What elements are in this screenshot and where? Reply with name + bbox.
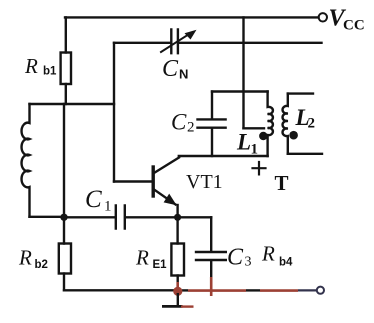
wire RE1 bottom lead black part <box>176 276 178 283</box>
svg-text:VT1: VT1 <box>186 171 223 193</box>
wire tank top <box>212 90 268 92</box>
wire bias rail y104 <box>30 103 115 105</box>
svg-text:C: C <box>85 186 102 213</box>
ground stem <box>177 293 179 305</box>
transistor VT1 collector <box>154 158 179 174</box>
transformer L2 top bracket <box>288 92 313 94</box>
svg-text:R: R <box>18 246 32 270</box>
wire emitter lead <box>176 205 178 217</box>
svg-text:N: N <box>179 67 188 82</box>
resistor R_b2 <box>59 244 71 274</box>
svg-text:1: 1 <box>104 199 112 215</box>
capacitor CN arrow <box>161 34 190 53</box>
wire second rail left of CN <box>114 42 170 44</box>
wire top Vcc rail <box>65 16 319 18</box>
transistor VT1 base bar <box>151 167 154 196</box>
inductor L2 <box>283 94 288 154</box>
svg-text:R: R <box>135 246 149 270</box>
svg-text:2: 2 <box>187 120 195 136</box>
plus sign <box>253 162 266 174</box>
capacitor CN arrowhead <box>185 30 197 40</box>
capacitor CN plates <box>171 30 178 54</box>
wire rail y217 to C1 <box>64 216 115 218</box>
polarity dot L2 <box>289 131 298 140</box>
svg-text:L: L <box>236 130 251 155</box>
svg-text:3: 3 <box>245 255 252 270</box>
wire bottom rail navy part <box>298 289 317 291</box>
node dot C1 left <box>60 214 67 221</box>
transistor emitter arrowhead <box>164 194 177 206</box>
wire mid vertical x64 <box>63 104 65 244</box>
ground red dash <box>181 305 194 307</box>
wire RE1 top lead <box>176 217 178 243</box>
ground bar <box>162 305 183 308</box>
resistor R_E1 <box>171 244 184 276</box>
resistor R_b1 <box>61 53 71 85</box>
polarity dot L1 <box>259 132 267 140</box>
svg-text:2: 2 <box>308 116 316 132</box>
wire C3 top lead <box>210 217 212 250</box>
transformer L2 bottom bracket <box>288 153 322 155</box>
capacitor C1 plates <box>116 206 125 229</box>
inductor L1 <box>268 92 273 157</box>
wire bottom rail black dashes <box>182 289 260 291</box>
svg-text:C: C <box>171 110 187 135</box>
wire Rb1 top lead <box>65 17 67 52</box>
capacitor C3 plates <box>196 252 226 260</box>
svg-text:b2: b2 <box>35 259 48 271</box>
wire tank left vertical lower <box>211 129 213 156</box>
svg-text:CC: CC <box>343 18 365 34</box>
wire bottom rail black part <box>64 289 177 291</box>
svg-text:R: R <box>24 54 38 78</box>
svg-text:C: C <box>162 56 179 82</box>
svg-text:E1: E1 <box>153 259 168 271</box>
wire tank left vertical upper <box>211 92 213 119</box>
wire Vcc tap vertical <box>242 17 244 128</box>
terminal output <box>317 287 324 294</box>
wire C3 bottom lead black part <box>210 261 212 277</box>
wire Rb2 bottom lead <box>63 274 65 291</box>
wire bottom rail red part <box>178 277 298 296</box>
capacitor C2 plates <box>198 119 226 127</box>
wire base vertical x114 <box>113 43 115 182</box>
terminal Vcc <box>319 13 327 21</box>
wire C1 to emitter node to C3 <box>126 216 211 218</box>
svg-text:R: R <box>261 242 275 266</box>
wire second rail right of CN <box>179 42 322 44</box>
wire coil bottom to node <box>30 216 65 218</box>
svg-text:b4: b4 <box>279 257 293 269</box>
svg-text:T: T <box>275 171 289 195</box>
svg-text:C: C <box>227 245 244 271</box>
wire collector rail / tank bottom <box>179 155 268 157</box>
transistor VT1 emitter <box>154 190 176 205</box>
inductor left coil <box>22 104 30 217</box>
wire Vcc tap horizontal to L1 <box>244 127 265 129</box>
svg-text:1: 1 <box>251 142 259 158</box>
wire base lead <box>114 180 152 182</box>
node dot emitter <box>174 214 181 221</box>
wire Rb1 bottom lead <box>65 84 67 104</box>
svg-text:b1: b1 <box>43 66 57 78</box>
node dot ground (red) <box>173 287 182 296</box>
